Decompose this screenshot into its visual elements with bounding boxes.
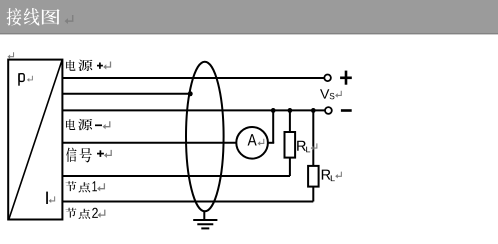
terminal - circle — [325, 107, 332, 114]
cable shield ellipse — [186, 62, 224, 212]
wire 信号+ row — [62, 175, 290, 177]
label 节点 1 — [66, 181, 97, 192]
title bar — [0, 0, 498, 33]
junction dot 2 — [288, 108, 293, 113]
title text 接线图 — [7, 8, 60, 26]
wire ammeter out — [268, 142, 274, 144]
wire 电源- row — [62, 142, 236, 144]
wire shield row — [62, 93, 189, 95]
ground stem — [203, 211, 205, 220]
label 电源 + — [66, 60, 103, 71]
resistor RL1 — [285, 132, 296, 158]
label p — [19, 73, 24, 86]
transmitter box — [8, 60, 62, 220]
resistor RL2 — [308, 166, 319, 187]
wire 节点1 row — [62, 201, 313, 203]
wire 电源+ row — [62, 77, 324, 79]
terminal + circle — [324, 75, 331, 82]
label 信号 + — [66, 148, 104, 163]
plus sign output — [340, 71, 352, 85]
title paragraph mark — [65, 15, 73, 24]
vertical ammeter to bus — [272, 110, 274, 142]
label 节点 2 — [66, 208, 98, 219]
label I — [46, 192, 48, 204]
shield junction dot — [188, 91, 193, 96]
junction dot 3 — [311, 108, 316, 113]
paragraph mark above box — [8, 52, 14, 59]
minus sign output — [341, 109, 352, 112]
ground — [193, 220, 217, 228]
wire minus bus row — [62, 109, 324, 111]
label Vs — [320, 89, 329, 98]
junction dot 1 — [271, 108, 276, 113]
vertical RL2 — [312, 110, 314, 201]
label 电源 - — [66, 119, 102, 130]
ammeter U1 — [236, 127, 268, 159]
vertical RL1 — [289, 110, 291, 176]
diagonal — [9, 61, 62, 219]
